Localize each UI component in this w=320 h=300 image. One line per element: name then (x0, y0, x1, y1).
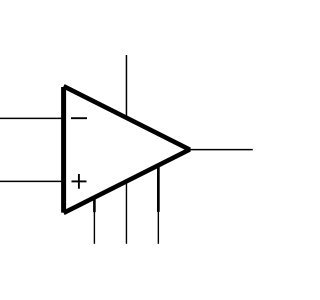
wire bottom-right (157, 212, 159, 244)
wire bottom-left (93, 212, 95, 244)
plus sign non-inverting input (72, 180, 87, 182)
wire bottom-middle (125, 180, 127, 244)
minus sign inverting input (71, 117, 87, 119)
op-amp U1 triangle left edge (61, 87, 66, 213)
wire output (190, 149, 253, 151)
wire inverting input (0, 117, 64, 119)
wire V+ top pin (125, 55, 127, 117)
wire non-inverting input (0, 180, 64, 182)
pin stub bottom-right thick (157, 164, 160, 212)
pin stub bottom-left thick (93, 196, 96, 212)
op-amp U1 triangle diagonal edges (64, 86, 190, 213)
